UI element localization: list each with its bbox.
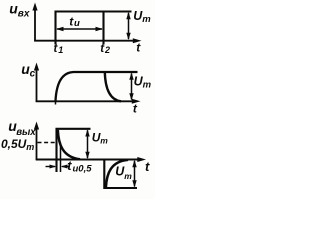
negative spike edge and bottom extension (104, 160, 137, 189)
svg-text:и: и (74, 18, 80, 29)
label U_m positive spike (92, 130, 109, 145)
svg-text:вых: вых (16, 127, 36, 138)
u_out axis horizontal t-axis (36, 157, 146, 162)
right arrow of t_i0.5 (61, 165, 70, 169)
label t_i0.5 (67, 159, 92, 175)
u_c axis horizontal t-axis (36, 99, 141, 104)
label u_vx (9, 1, 30, 20)
U_m dimension arrow middle plot (129, 72, 133, 100)
dashed half-level line (38, 142, 57, 144)
label t1 (54, 43, 64, 55)
left arrow of t_i0.5 (46, 165, 57, 169)
svg-text:1: 1 (58, 45, 63, 55)
u_c axis vertical (34, 63, 39, 103)
label 0.5U_m (1, 137, 34, 152)
positive spike decay curve (58, 130, 80, 160)
label u_c (21, 61, 35, 80)
svg-text:2: 2 (104, 45, 110, 55)
svg-text:m: m (142, 14, 151, 25)
capacitor voltage curve rise and top (56, 72, 138, 101)
input pulse waveform (56, 12, 132, 45)
svg-text:m: m (143, 80, 152, 91)
svg-text:вх: вх (18, 9, 30, 20)
svg-text:и0,5: и0,5 (73, 164, 93, 175)
U_m dimension arrow top plot (126, 12, 130, 40)
label U_m negative spike (115, 165, 132, 181)
svg-text:0,5U: 0,5U (1, 137, 27, 151)
U_m dimension arrow negative spike (132, 160, 136, 188)
u_vx axis vertical (32, 3, 37, 42)
label t2 (100, 43, 110, 55)
svg-text:m: m (26, 142, 34, 152)
t1 tick middle plot (55, 100, 57, 105)
capacitor voltage curve fall (105, 72, 121, 101)
t_i dimension arrow (56, 27, 103, 31)
label u_out (8, 118, 36, 138)
label U_m top plot (133, 9, 151, 25)
svg-text:t: t (145, 159, 150, 174)
label t_i (69, 14, 80, 29)
negative spike recovery curve (106, 160, 128, 187)
u_vx axis horizontal t-axis (34, 38, 141, 43)
half-width tick (60, 144, 62, 173)
label U_m middle plot (134, 74, 152, 90)
positive spike edge and top extension (57, 129, 91, 172)
svg-text:m: m (100, 135, 108, 145)
u_out axis vertical (34, 122, 39, 161)
svg-text:с: с (30, 69, 36, 80)
svg-text:m: m (124, 171, 132, 181)
U_m dimension arrow positive spike (85, 129, 89, 159)
